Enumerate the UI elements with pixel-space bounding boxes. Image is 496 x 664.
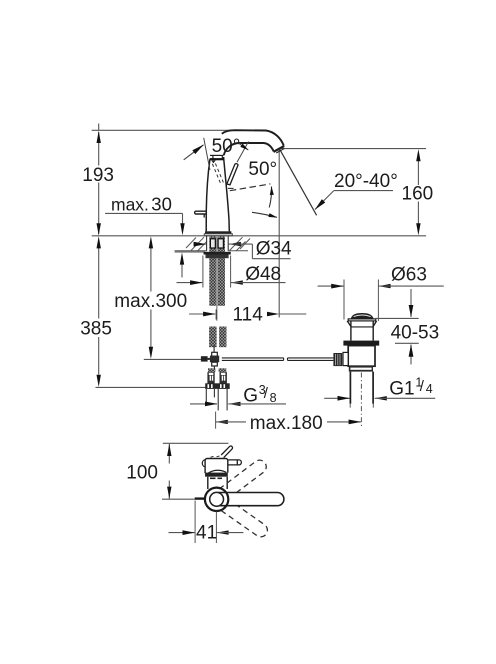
svg-text:50°: 50° <box>248 159 277 180</box>
drain ring <box>349 366 373 371</box>
dimension 193 <box>98 124 100 235</box>
pivot inner circle <box>210 492 224 506</box>
dimension 160 <box>417 161 419 224</box>
faucet body <box>206 155 229 231</box>
drain neck <box>347 321 376 341</box>
top reference line <box>92 129 233 131</box>
svg-text:193: 193 <box>82 165 114 186</box>
svg-text:Ø48: Ø48 <box>245 264 281 285</box>
svg-text:41: 41 <box>196 523 217 544</box>
top view body <box>205 459 228 490</box>
dashed swivel capsule lower <box>220 499 270 540</box>
spout mouth <box>274 146 285 152</box>
pull-rod knob top view <box>228 460 241 465</box>
pivot outer circle <box>205 488 228 511</box>
dimension 385 <box>98 248 100 375</box>
hose cross-sections in shank <box>210 239 215 248</box>
dimension diameter 34 <box>194 243 206 245</box>
max.300 bottom reference line <box>144 358 201 360</box>
193 arrow up <box>97 131 101 143</box>
vertical line from spout tip <box>278 149 280 317</box>
pop-up waste dome <box>351 313 374 319</box>
hose break lower segments <box>209 327 217 348</box>
deck hatch left <box>186 237 206 251</box>
svg-text:Ø34: Ø34 <box>256 238 292 259</box>
drain body <box>348 346 375 367</box>
rod housing <box>343 352 348 365</box>
lever axis extension <box>237 142 249 163</box>
svg-text:30: 30 <box>151 193 172 214</box>
dimension max.180 <box>215 412 217 429</box>
leader from 50 deg <box>239 143 249 150</box>
knurled knob <box>333 353 342 366</box>
spout outlet reference line <box>282 148 427 150</box>
connector hex band <box>205 383 230 389</box>
dimension max.300 <box>150 248 152 347</box>
threaded shank <box>209 236 225 306</box>
100 bottom reference line <box>162 498 195 500</box>
dashed lever positions inside body <box>212 164 223 186</box>
faucet base <box>205 231 231 234</box>
aerator stub <box>195 497 205 499</box>
svg-text:max.: max. <box>111 194 149 214</box>
svg-text:114: 114 <box>233 305 264 326</box>
collar arc <box>208 470 226 473</box>
cartridge band <box>205 473 228 477</box>
dimension 100 <box>168 444 170 499</box>
drain flange <box>343 341 379 346</box>
mounting nut <box>206 255 229 259</box>
svg-text:G1: G1 <box>389 378 414 399</box>
dimension diameter 48 <box>202 256 204 288</box>
385 bottom reference line <box>96 386 206 388</box>
spout capsule solid <box>218 493 284 506</box>
dimension 41 <box>194 501 196 544</box>
svg-text:20°-40°: 20°-40° <box>334 171 398 192</box>
dimension 114 <box>189 313 215 315</box>
connector tubes below <box>206 389 227 411</box>
dimension G1 1/4 <box>349 404 351 408</box>
arc arrow 50 deg left <box>184 145 204 160</box>
svg-text:max.300: max.300 <box>114 291 187 312</box>
svg-text:max.180: max.180 <box>250 413 323 434</box>
G3/8 hose connectors <box>208 368 215 372</box>
diameter 63 extension lines <box>343 280 345 320</box>
pull rod vertical <box>213 346 215 353</box>
max.30 lower reference line <box>175 251 205 253</box>
lever raised position <box>227 142 249 185</box>
arc arrow toward vertical line <box>252 212 277 217</box>
deck underside lines <box>175 250 207 252</box>
label G3/8 <box>190 403 217 405</box>
dimension diameter 63 <box>318 285 344 287</box>
deck hole edges <box>206 236 208 251</box>
dashed lever horizontal position <box>230 184 271 191</box>
top view lever <box>221 446 232 458</box>
washer <box>204 252 231 255</box>
dimension 40-53 <box>410 289 412 317</box>
tailpipe centerline <box>360 373 362 429</box>
svg-text:160: 160 <box>402 184 434 205</box>
svg-text:Ø63: Ø63 <box>391 265 427 286</box>
deck line <box>92 235 426 237</box>
top view small dashes <box>211 456 220 457</box>
dome plate <box>348 319 376 321</box>
svg-text:8: 8 <box>270 391 277 405</box>
deck hatch right <box>230 237 251 251</box>
svg-text:385: 385 <box>80 319 112 340</box>
svg-text:4: 4 <box>426 382 433 396</box>
water stream line <box>280 150 317 216</box>
svg-text:G: G <box>243 386 258 407</box>
faucet collar <box>210 158 224 160</box>
closed lever axis line <box>204 138 210 170</box>
horizontal pull rod to drain <box>222 358 334 361</box>
rod coupler <box>212 352 218 356</box>
pull-rod knob side view <box>195 211 206 214</box>
arc arrow up at dashed lever <box>269 187 271 208</box>
tailpipe <box>349 372 351 404</box>
100 top reference line <box>163 442 229 444</box>
dimension max.30 <box>105 212 182 214</box>
svg-text:100: 100 <box>126 463 158 484</box>
svg-text:40-53: 40-53 <box>391 323 440 344</box>
svg-text:50°: 50° <box>212 136 241 157</box>
faucet spout <box>222 130 284 155</box>
left ear <box>202 460 205 467</box>
dashed swivel capsule upper <box>219 458 269 500</box>
193 arrow down <box>97 223 101 235</box>
